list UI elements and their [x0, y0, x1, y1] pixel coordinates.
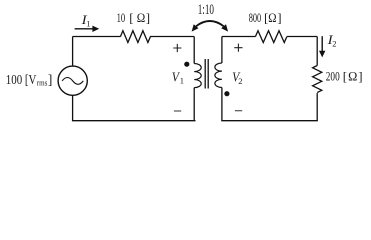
wire right vertical secondary — [316, 37, 318, 121]
transformer primary coil L1 — [194, 64, 201, 88]
svg-text:Ω: Ω — [348, 69, 357, 84]
svg-text:Ω: Ω — [268, 10, 276, 25]
svg-text:2: 2 — [332, 38, 336, 48]
wire primary coil vertical — [193, 37, 195, 121]
svg-text:1: 1 — [180, 76, 184, 86]
svg-text:800: 800 — [249, 10, 262, 25]
svg-text:]: ] — [358, 69, 362, 84]
svg-text:[: [ — [343, 69, 347, 84]
wire bottom primary — [72, 120, 196, 122]
resistor R1 10ohm — [120, 31, 150, 43]
current arrow I2 — [321, 36, 323, 51]
polarity dot primary — [184, 62, 189, 67]
svg-text:1: 1 — [86, 18, 90, 28]
svg-text:100 [V: 100 [V — [6, 72, 37, 87]
svg-text:[: [ — [129, 10, 133, 25]
resistor R3 200ohm vertical — [313, 66, 322, 93]
svg-text:]: ] — [277, 10, 281, 25]
resistor R2 800ohm — [255, 31, 286, 43]
svg-text:Ω: Ω — [137, 10, 146, 25]
source VS sine — [62, 78, 83, 85]
source VS circle — [58, 66, 87, 95]
transformer secondary coil L2 — [215, 63, 222, 87]
plus sign V2 — [234, 44, 242, 52]
svg-text:1:10: 1:10 — [198, 2, 214, 18]
svg-text:200: 200 — [326, 69, 340, 84]
wire left vertical primary — [72, 37, 74, 121]
polarity dot secondary — [224, 91, 229, 96]
svg-text:]: ] — [48, 72, 53, 87]
svg-text:rms: rms — [37, 79, 48, 88]
minus sign V2 — [235, 110, 242, 112]
transformer core — [205, 59, 208, 89]
current arrow I1 — [75, 28, 94, 30]
svg-text:]: ] — [146, 10, 150, 25]
wire bottom secondary — [221, 120, 317, 122]
wire secondary coil vertical — [221, 37, 223, 121]
turns ratio curved arrow — [196, 21, 224, 26]
wire top secondary — [222, 36, 317, 38]
svg-text:10: 10 — [117, 10, 126, 25]
minus sign V1 — [174, 110, 181, 112]
plus sign V1 — [173, 44, 181, 52]
wire top primary — [73, 36, 195, 38]
svg-text:2: 2 — [238, 76, 242, 86]
